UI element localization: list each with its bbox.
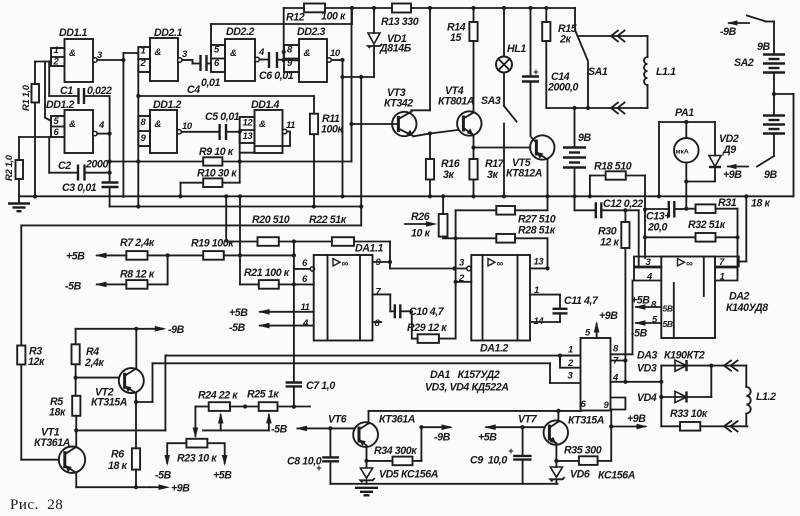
svg-text:HL1: HL1 <box>507 43 526 55</box>
capacitor C8 <box>287 428 339 483</box>
svg-text:DA2: DA2 <box>729 291 750 303</box>
capacitor C3 <box>62 96 119 207</box>
diode VD2 <box>709 122 739 182</box>
DA2 pin5 arrow -5V <box>631 315 673 340</box>
svg-text:R1 1,0: R1 1,0 <box>21 84 32 111</box>
svg-text:R2 1,0: R2 1,0 <box>4 154 15 181</box>
DA3 pin9 notch <box>604 398 626 461</box>
svg-text:+: + <box>533 67 539 78</box>
battery GB2 9V <box>763 116 785 182</box>
wire x455 vertical <box>454 210 458 338</box>
svg-text:R6: R6 <box>111 449 124 461</box>
svg-text:∞: ∞ <box>686 259 693 270</box>
resistor R8 <box>120 255 168 288</box>
svg-text:15: 15 <box>450 32 462 44</box>
svg-text:12: 12 <box>243 118 254 129</box>
capacitor C14 <box>522 6 579 136</box>
svg-text:Д814Б: Д814Б <box>379 43 412 55</box>
svg-text:&: & <box>155 119 162 130</box>
svg-text:-5В: -5В <box>65 281 82 293</box>
svg-text:-9В: -9В <box>720 26 737 38</box>
svg-text:&: & <box>69 119 76 130</box>
svg-text:0,01: 0,01 <box>201 77 221 89</box>
svg-text:VT7: VT7 <box>518 414 538 426</box>
transistor VT1 <box>34 427 85 473</box>
resistor R13 <box>381 4 575 29</box>
logic gate DD1.3 <box>138 99 193 153</box>
svg-text:DD1.2: DD1.2 <box>153 99 182 111</box>
wire y96 <box>138 96 314 114</box>
svg-text:∞: ∞ <box>497 259 504 270</box>
svg-text:R8 12 к: R8 12 к <box>120 269 155 281</box>
svg-text:R13 330: R13 330 <box>381 16 419 28</box>
svg-text:КС156А: КС156А <box>401 469 438 481</box>
wire DA1.1 pin8 stub <box>373 321 382 323</box>
svg-text:SA2: SA2 <box>734 57 754 69</box>
resistor R7 <box>120 237 203 260</box>
svg-text:DA3: DA3 <box>637 350 658 362</box>
svg-text:9В: 9В <box>578 132 591 144</box>
transistor VT4 <box>438 85 481 136</box>
DA3 pin7 wire <box>611 356 626 367</box>
net arrow +9V <box>723 164 748 181</box>
resistor R31 <box>686 197 770 213</box>
transistor VT7 <box>518 411 604 445</box>
svg-text:6: 6 <box>214 58 220 69</box>
svg-text:R20 510: R20 510 <box>252 214 290 226</box>
svg-text:DD2.1: DD2.1 <box>154 27 183 39</box>
wire x293.9 vertical <box>294 242 310 383</box>
svg-text:0,022: 0,022 <box>87 85 112 97</box>
svg-text:-5В: -5В <box>271 424 288 436</box>
wire feedback y24 <box>211 6 354 52</box>
zener diode VD1 <box>368 6 412 77</box>
svg-text:C1: C1 <box>60 85 73 97</box>
capacitor C6 <box>259 52 299 82</box>
wire y77 <box>340 75 374 226</box>
logic gate DD2.2 <box>211 26 265 81</box>
capacitor C13 <box>645 201 688 234</box>
resistor R4 <box>72 329 105 396</box>
svg-text:1: 1 <box>141 46 146 57</box>
resistor R28 <box>456 225 556 271</box>
svg-text:-9В: -9В <box>434 432 451 444</box>
node input DA1.1 <box>310 267 314 271</box>
svg-text:-5В: -5В <box>229 322 246 334</box>
label DA1 type <box>425 369 509 394</box>
transistor VT6 <box>328 411 415 447</box>
wire y108 <box>546 106 647 110</box>
resistor R9 <box>199 146 234 166</box>
svg-text:R25 1к: R25 1к <box>247 389 279 401</box>
resistor R19 <box>191 238 296 260</box>
svg-text:10: 10 <box>182 121 193 132</box>
svg-text:DA1.2: DA1.2 <box>480 343 509 355</box>
capacitor C11 <box>530 295 599 322</box>
svg-text:&: & <box>304 48 311 59</box>
battery GB1 9V <box>757 41 785 73</box>
main bus wire <box>19 194 794 198</box>
resistor R15 <box>542 6 578 108</box>
svg-text:∞: ∞ <box>342 259 349 270</box>
svg-text:13: 13 <box>243 131 254 142</box>
wire collector line y411 <box>369 409 581 413</box>
svg-text:C2: C2 <box>58 160 71 172</box>
net arrow -5V R8 <box>65 281 126 293</box>
svg-text:+: + <box>508 446 514 457</box>
wire VT2 emitter <box>134 393 153 404</box>
svg-text:-9В: -9В <box>168 324 185 336</box>
svg-text:C4: C4 <box>187 84 200 96</box>
svg-text:6: 6 <box>302 258 308 269</box>
svg-text:R18 510: R18 510 <box>594 161 632 173</box>
resistor R17 <box>469 158 504 198</box>
resistor R32 <box>645 219 740 242</box>
svg-text:5: 5 <box>54 116 60 127</box>
resistor R29 <box>407 311 456 343</box>
svg-text:КТ315А: КТ315А <box>568 415 604 427</box>
wire VT5 emitter <box>545 160 549 199</box>
svg-text:КТ801А: КТ801А <box>438 96 474 108</box>
svg-text:6: 6 <box>302 274 308 285</box>
resistor R1 <box>21 84 39 199</box>
svg-text:&: & <box>259 119 266 130</box>
svg-text:L1.2: L1.2 <box>756 391 776 403</box>
svg-text:1: 1 <box>54 45 59 56</box>
svg-text:2к: 2к <box>559 34 571 46</box>
svg-text:R34 300к: R34 300к <box>374 445 417 457</box>
svg-text:С7 1,0: С7 1,0 <box>306 380 335 392</box>
svg-text:10 к: 10 к <box>411 228 431 240</box>
svg-text:DA1.1: DA1.1 <box>355 243 384 255</box>
potentiometer R24 <box>195 390 258 431</box>
capacitor C7 <box>286 380 336 409</box>
battery GB 9V <box>563 108 591 198</box>
svg-text:C3 0,01: C3 0,01 <box>62 182 97 194</box>
svg-text:&: & <box>230 48 237 59</box>
ground <box>8 197 30 212</box>
svg-text:+9В: +9В <box>627 413 646 425</box>
wire pin13 vertical <box>238 132 242 183</box>
wire battery junction <box>772 73 794 197</box>
resistor R30 <box>598 210 630 384</box>
svg-text:1: 1 <box>720 272 725 283</box>
net arrow -9V VT6 <box>421 424 453 443</box>
DA3 pin2 notch <box>560 356 581 370</box>
svg-text:2,4к: 2,4к <box>84 357 105 369</box>
svg-text:5В: 5В <box>663 304 673 314</box>
svg-text:3к: 3к <box>487 169 498 181</box>
logic gate DD2.1 <box>138 27 188 81</box>
wire y161 <box>110 8 354 162</box>
svg-text:КТ361А: КТ361А <box>34 437 70 449</box>
net arrow +5V VT7 base <box>478 424 525 443</box>
svg-text:R7 2,4к: R7 2,4к <box>120 237 155 249</box>
resistor R35 <box>556 445 611 465</box>
wire VT3 collector <box>412 6 433 110</box>
resistor R33 <box>661 397 747 431</box>
capacitor C4 <box>182 55 221 96</box>
svg-text:18 к: 18 к <box>751 198 771 210</box>
svg-text:7: 7 <box>376 287 382 298</box>
wire <box>136 65 140 209</box>
resistor R22 <box>309 214 390 246</box>
net arrow -9V <box>76 324 185 336</box>
capacitor C10 <box>395 304 445 318</box>
resistor R10 <box>178 168 239 199</box>
potentiometer R23 <box>155 407 232 482</box>
svg-text:КТ812А: КТ812А <box>506 168 542 180</box>
switch SA3 <box>481 73 517 199</box>
svg-text:9: 9 <box>604 400 610 411</box>
svg-text:SA1: SA1 <box>588 66 608 78</box>
net arrow +5V pin11 <box>229 307 314 319</box>
wire DA1.2 pin13 <box>530 267 548 269</box>
svg-text:10: 10 <box>330 48 341 59</box>
svg-text:5: 5 <box>585 328 591 339</box>
node input DA1.2 <box>467 266 471 270</box>
svg-text:+5В: +5В <box>631 295 650 307</box>
svg-text:R10 30 к: R10 30 к <box>197 168 237 180</box>
switch SA2 lower blade <box>757 156 774 167</box>
resistor R14 <box>447 6 478 113</box>
resistor R11 <box>310 113 344 207</box>
wire <box>19 118 112 161</box>
transistor VT2 <box>76 329 144 409</box>
svg-text:1: 1 <box>568 345 573 356</box>
wire VT3 emitter to VT4 base <box>414 130 458 136</box>
svg-text:+9В: +9В <box>599 310 618 322</box>
svg-text:8: 8 <box>287 45 293 56</box>
wire R31 R32 right vertical to DA2 pin1 <box>737 209 739 274</box>
wire y206 <box>110 204 364 208</box>
svg-text:3: 3 <box>568 371 574 382</box>
svg-text:Д9: Д9 <box>722 144 736 156</box>
svg-text:4: 4 <box>258 47 265 58</box>
svg-text:5В: 5В <box>663 319 673 329</box>
net arrow +5V R7 <box>66 251 126 263</box>
svg-text:VD3: VD3 <box>637 363 657 375</box>
DA3 pin5 arrow +9V <box>585 310 618 339</box>
svg-text:+: + <box>316 463 322 474</box>
svg-text:VT6: VT6 <box>328 414 347 426</box>
svg-text:R32 51к: R32 51к <box>688 219 726 231</box>
svg-text:К140УД8: К140УД8 <box>726 302 768 314</box>
op-amp DA1.2 <box>458 255 544 355</box>
capacitor C5 <box>181 111 241 140</box>
wire DD1.4 out loop <box>240 132 290 153</box>
diode VD3 <box>637 360 746 397</box>
svg-text:+5В: +5В <box>66 251 85 263</box>
svg-text:R28 51к: R28 51к <box>518 225 556 237</box>
wire x226 vertical <box>224 194 257 241</box>
svg-text:18к: 18к <box>49 407 66 419</box>
svg-text:3: 3 <box>459 258 465 269</box>
svg-text:мкА: мкА <box>676 149 689 156</box>
potentiometer R26 <box>405 194 456 239</box>
svg-text:12к: 12к <box>28 356 45 368</box>
svg-text:R26: R26 <box>411 211 430 223</box>
svg-text:5: 5 <box>214 45 220 56</box>
svg-text:11: 11 <box>286 120 295 131</box>
zener diode VD6 <box>550 467 635 484</box>
switch SA2 <box>734 16 774 70</box>
svg-text:20,0: 20,0 <box>647 222 668 234</box>
svg-text:8: 8 <box>613 344 619 355</box>
lamp HL1 <box>496 6 526 73</box>
svg-text:+5В: +5В <box>478 432 497 444</box>
logic gate DD1.1 <box>51 27 103 82</box>
svg-text:C5 0,01: C5 0,01 <box>205 111 240 123</box>
net arrow -5V VT6 base <box>271 424 333 436</box>
transistor VT5 <box>506 135 555 179</box>
svg-text:3: 3 <box>182 49 188 60</box>
svg-text:+5В: +5В <box>213 470 232 482</box>
svg-text:4: 4 <box>302 318 309 329</box>
wire DA1.1 pin9 <box>373 261 391 263</box>
svg-text:L1.1: L1.1 <box>656 66 676 78</box>
wire left rail <box>21 225 361 345</box>
svg-text:DD1.2: DD1.2 <box>46 99 75 111</box>
wire DD2.3 out <box>331 58 344 199</box>
svg-text:DD1.4: DD1.4 <box>251 99 280 111</box>
wire VT7 emitter <box>554 443 558 467</box>
svg-text:9В: 9В <box>757 41 770 53</box>
svg-text:DD2.2: DD2.2 <box>226 26 255 38</box>
inductor L1.1 <box>644 36 676 108</box>
switch SA1 <box>575 8 608 110</box>
wire line B <box>153 363 581 402</box>
DA3 pin4 wire <box>611 373 664 384</box>
svg-text:9В: 9В <box>764 169 777 181</box>
inductor L1.2 <box>746 366 776 427</box>
svg-text:С10 4,7: С10 4,7 <box>409 306 445 318</box>
svg-text:3к: 3к <box>443 169 454 181</box>
op-amp DA1.1 <box>301 243 384 341</box>
resistor R16 <box>426 134 460 199</box>
svg-text:&: & <box>69 48 76 59</box>
svg-text:12 к: 12 к <box>600 237 620 249</box>
svg-text:R21 100 к: R21 100 к <box>244 267 290 279</box>
svg-text:R33 10к: R33 10к <box>670 408 708 420</box>
logic gate DD2.3 <box>284 26 341 82</box>
svg-text:100 к: 100 к <box>321 11 346 23</box>
svg-text:-5В: -5В <box>631 328 648 340</box>
DA2 pin4 notch <box>634 268 661 283</box>
svg-text:VD4: VD4 <box>637 392 657 404</box>
svg-text:R35 300: R35 300 <box>564 445 602 457</box>
wire VT4 emitter <box>471 135 530 159</box>
svg-text:8: 8 <box>651 300 657 311</box>
svg-text:VD6: VD6 <box>570 469 590 481</box>
resistor R6 <box>108 402 140 489</box>
svg-text:R22 51к: R22 51к <box>309 214 347 226</box>
svg-text:2000,0: 2000,0 <box>547 82 579 94</box>
wire x240 vertical <box>238 194 259 284</box>
svg-text:4: 4 <box>98 120 105 131</box>
svg-text:9: 9 <box>141 133 147 144</box>
svg-text:К190КТ2: К190КТ2 <box>664 350 705 362</box>
svg-text:+9В: +9В <box>723 169 742 181</box>
resistor R18 <box>590 161 645 197</box>
svg-text:8: 8 <box>141 117 147 128</box>
svg-text:DA1 К157УД2: DA1 К157УД2 <box>430 369 500 381</box>
svg-text:R12: R12 <box>286 12 305 24</box>
svg-text:R19 100к: R19 100к <box>191 238 234 250</box>
resistor R21 <box>244 267 314 289</box>
svg-text:SA3: SA3 <box>481 95 501 107</box>
svg-text:18 к: 18 к <box>108 460 128 472</box>
DA2 pin3 notch <box>634 257 661 269</box>
svg-text:100к: 100к <box>321 124 343 136</box>
wire DA1.2 pin2 <box>456 281 472 283</box>
wire DA1.1 pin7 to C10 <box>373 294 395 311</box>
wire line A <box>165 354 580 431</box>
svg-text:13: 13 <box>534 257 545 268</box>
svg-text:+9В: +9В <box>171 483 190 495</box>
wire VT6 emitter <box>364 445 368 467</box>
svg-text:R9 10 к: R9 10 к <box>199 146 234 158</box>
wire VT1 emitter bottom <box>76 473 190 495</box>
DA2 pin8 arrow +5V <box>631 295 673 314</box>
potentiometer R25 <box>203 389 310 431</box>
DA2 pin7 notch <box>715 196 746 268</box>
capacitor C1 <box>49 62 112 105</box>
svg-text:РА1: РА1 <box>675 107 694 119</box>
net arrow -9V <box>720 20 749 38</box>
capacitor C9 <box>470 427 532 484</box>
svg-text:КС156А: КС156А <box>598 470 635 482</box>
wire C12 to DA2 pin4 <box>638 210 640 267</box>
svg-text:R29 12 к: R29 12 к <box>407 322 447 334</box>
svg-text:С11 4,7: С11 4,7 <box>564 295 599 307</box>
node junction <box>108 159 112 163</box>
svg-text:КТ315А: КТ315А <box>91 397 127 409</box>
svg-text:С12 0,22: С12 0,22 <box>603 198 643 210</box>
IC DA3 <box>581 338 705 411</box>
svg-text:КТ342: КТ342 <box>384 98 413 110</box>
ground symbol <box>355 488 378 496</box>
resistor R20 <box>252 214 332 246</box>
wire R12 left vertical <box>282 8 286 60</box>
svg-text:6: 6 <box>581 399 587 410</box>
svg-text:-5В: -5В <box>155 470 172 482</box>
coupling arrows top <box>578 31 648 42</box>
svg-text:VD3, VD4 КД522А: VD3, VD4 КД522А <box>425 382 509 394</box>
wire VT1 collector line <box>76 429 165 431</box>
diode VD4 <box>637 366 711 404</box>
svg-text:КТ361А: КТ361А <box>379 414 415 426</box>
resistor R12 <box>284 4 392 24</box>
logic gate DD1.2 <box>46 99 105 153</box>
op-amp DA2 <box>661 257 768 339</box>
svg-text:8: 8 <box>375 318 381 329</box>
resistor R34 <box>367 425 424 465</box>
net arrow +9V DA3 pin9 <box>611 413 648 429</box>
svg-text:Рис. 28: Рис. 28 <box>10 497 63 513</box>
svg-text:+5В: +5В <box>229 307 248 319</box>
svg-text:&: & <box>155 47 162 58</box>
svg-text:DD2.3: DD2.3 <box>297 26 326 38</box>
DA3 pin8 wire <box>611 281 633 355</box>
net arrow -5V pin4 <box>229 322 314 334</box>
wire R22 to DA1.2 input <box>388 242 467 271</box>
coupling arrows L1.2 bottom <box>724 421 738 431</box>
coupling arrows bottom <box>611 103 625 114</box>
logic gate DD1.4 <box>240 99 295 153</box>
meter PA1 <box>657 107 715 209</box>
svg-text:R23 10 к: R23 10 к <box>177 453 217 465</box>
